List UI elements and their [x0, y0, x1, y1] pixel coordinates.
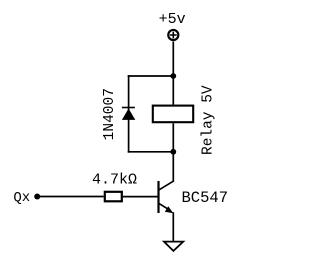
wire emitter	[172, 212, 174, 242]
wire bottom rail	[128, 151, 174, 153]
resistor R1	[105, 192, 122, 202]
wire collector	[172, 152, 174, 182]
diode D1 1N4007	[122, 108, 135, 120]
wire base	[123, 196, 159, 198]
svg-text:1N4007: 1N4007	[102, 88, 118, 140]
transistor Q1 BC547	[159, 181, 174, 213]
svg-text:Relay 5V: Relay 5V	[201, 85, 217, 155]
power terminal +5V	[168, 30, 178, 40]
ground	[164, 242, 183, 251]
terminal Qx	[34, 194, 40, 200]
svg-text:+5v: +5v	[159, 11, 186, 28]
node bottom junction	[170, 149, 176, 155]
wire top rail	[128, 75, 174, 77]
wire Qx to resistor	[37, 196, 104, 198]
wire diode branch	[128, 75, 130, 152]
svg-text:Qx: Qx	[13, 190, 30, 206]
wire top node to relay	[172, 76, 174, 105]
wire supply to top node	[172, 41, 174, 76]
wire relay bottom	[172, 123, 174, 152]
svg-text:4.7kΩ: 4.7kΩ	[92, 171, 137, 188]
svg-text:BC547: BC547	[182, 189, 229, 207]
node top junction	[170, 73, 176, 79]
relay coil K1	[153, 106, 193, 123]
